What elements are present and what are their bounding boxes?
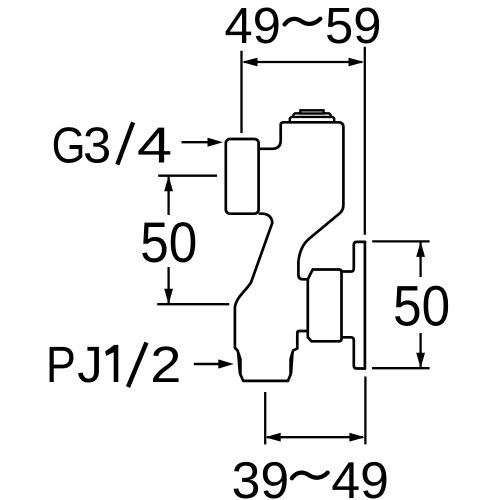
digits 59	[327, 8, 379, 44]
letter G	[54, 127, 82, 163]
cap step 2	[293, 113, 330, 117]
bottom-left extension line	[264, 392, 266, 444]
PJ1/2 arrow	[194, 359, 234, 368]
digit 3	[85, 127, 109, 163]
G3/4 arrow	[182, 138, 224, 147]
bottom dimension text 39~49	[234, 462, 387, 499]
digit 2	[153, 346, 179, 382]
tilde of 39~49	[292, 473, 328, 479]
digits 49	[226, 8, 279, 44]
wall extension line upper	[364, 47, 366, 235]
left 50 bottom extension line	[157, 303, 229, 305]
left 50 top extension line	[158, 175, 217, 177]
top-left extension line	[240, 51, 242, 133]
digit 4	[138, 128, 170, 163]
PJ tube left barb inner line	[238, 352, 240, 374]
G3/4 connector rounded rect	[226, 139, 259, 214]
cap step 1	[290, 117, 334, 122]
right 50 dimension text	[395, 286, 448, 326]
label PJ1/2	[50, 343, 179, 388]
right 50 dimension line with arrows	[416, 241, 425, 368]
flange right edge on wall line	[364, 241, 367, 370]
left 50 dimension line with arrows	[164, 176, 173, 305]
left 50 dimension text	[142, 222, 195, 262]
slash of G3/4	[117, 122, 133, 164]
bottom-right extension line	[364, 377, 366, 445]
PJ tube right barb inner line	[292, 352, 293, 373]
digits 39	[234, 462, 287, 499]
right 50 bottom extension line	[372, 367, 430, 369]
wall flange top section with neck branch	[342, 242, 365, 272]
letter J	[78, 347, 99, 383]
main body outline	[259, 122, 344, 341]
tilde of 49~59	[285, 19, 321, 25]
label G3/4	[54, 122, 170, 164]
bottom dimension line with arrows	[265, 433, 365, 442]
letter P	[50, 347, 74, 382]
digits 49	[332, 462, 386, 499]
wall flange bottom section with neck branch	[342, 337, 365, 368]
digit 1	[105, 345, 118, 382]
slash of PJ1/2	[128, 343, 147, 388]
body lower-left waist and PJ tube outline	[235, 214, 308, 381]
top dimension line with arrows	[242, 58, 364, 67]
cap top bar	[300, 110, 323, 113]
right 50 top extension line	[372, 240, 429, 242]
top dimension text 49~59	[226, 8, 380, 44]
